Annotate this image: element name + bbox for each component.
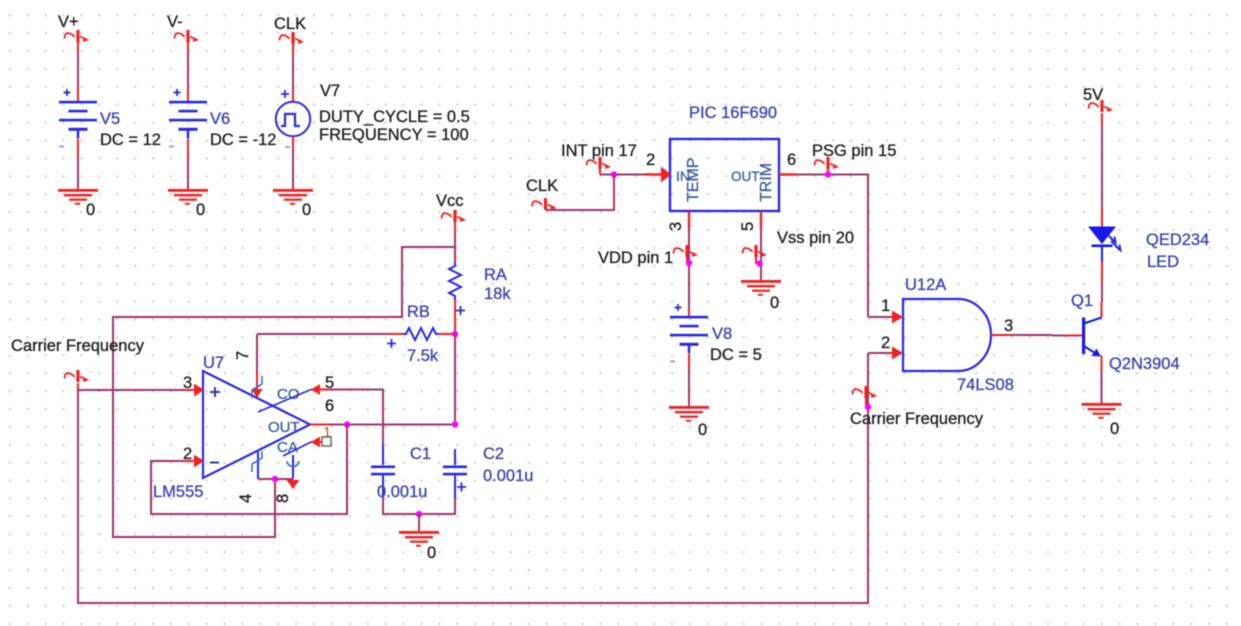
svg-text:0: 0 (698, 421, 707, 439)
wire carrier long rail (78, 353, 868, 603)
ground 0 (C1/C2) (399, 531, 439, 547)
svg-text:0: 0 (770, 294, 779, 312)
svg-text:LED: LED (1147, 253, 1179, 271)
pin 4 lead (bottom) (257, 452, 259, 479)
off-page connector VDD (674, 245, 699, 257)
svg-text:6: 6 (325, 397, 334, 415)
wire V8 to ground (688, 354, 690, 369)
svg-text:Vcc: Vcc (436, 192, 464, 210)
svg-text:RA: RA (484, 266, 507, 284)
svg-text:0: 0 (86, 201, 95, 219)
svg-text:RB: RB (407, 303, 430, 321)
svg-text:0: 0 (302, 201, 311, 219)
wire pin7 to RB (257, 333, 389, 335)
LED D (QED234) (1088, 227, 1116, 245)
wire V6 to ground (187, 139, 189, 157)
svg-text:CLK: CLK (526, 177, 558, 195)
svg-text:7: 7 (234, 351, 252, 360)
wire VDD to V8 (688, 309, 690, 317)
svg-text:V6: V6 (210, 110, 230, 128)
junction OUT feedback (344, 421, 350, 427)
wire pin 5 down to ground (760, 228, 762, 280)
capacitor C2 0.001u (454, 449, 456, 465)
svg-text:18k: 18k (484, 285, 511, 303)
pin 6 of PIC (779, 173, 796, 175)
wire CLK to V7 (292, 34, 294, 46)
svg-text:U7: U7 (203, 354, 224, 372)
svg-text:OUT: OUT (731, 169, 760, 184)
svg-text:U12A: U12A (905, 276, 946, 294)
ground 0 (V6) (168, 189, 208, 205)
wire junction down to OUT node (454, 334, 456, 425)
junction pins 4/8 (272, 476, 278, 482)
wire to pin 3 (78, 389, 185, 391)
pin 3 (+) (185, 389, 196, 391)
svg-text:8: 8 (274, 494, 292, 503)
svg-text:DC = -12: DC = -12 (210, 131, 276, 149)
svg-text:C1: C1 (410, 445, 431, 463)
wire PSG rail corner into pin 1 (868, 316, 889, 318)
wire Vcc stub (454, 221, 456, 234)
wire pin 7 up to RB rail (256, 334, 258, 372)
wire OUT node (330, 424, 455, 426)
wire RA bottom to junction (454, 300, 456, 334)
off-page connector INT (587, 157, 612, 169)
off-page connector Vss (743, 245, 768, 257)
wire AND output to Q1 base (1010, 334, 1052, 336)
wire V5 to ground (77, 139, 79, 157)
junction Vss (756, 260, 762, 266)
svg-text:3: 3 (667, 222, 685, 231)
junction cap ground (416, 511, 422, 517)
junction RA/RB (452, 331, 458, 337)
svg-text:Q1: Q1 (1071, 292, 1093, 310)
svg-text:0.001u: 0.001u (483, 467, 533, 485)
ground 0 (V5) (58, 189, 98, 205)
ground 0 (V8) (669, 406, 709, 422)
svg-text:PIC 16F690: PIC 16F690 (689, 104, 777, 122)
wire Vcc branch to pin 8 loop (113, 247, 455, 537)
junction CLK/INT (611, 171, 617, 177)
off-page connector 5V (1089, 100, 1114, 112)
op-amp style triangle U7 (203, 371, 310, 478)
pin 2 of PIC (645, 173, 662, 175)
svg-text:C2: C2 (483, 445, 504, 463)
svg-text:CLK: CLK (274, 15, 306, 33)
wire 5V to LED (1101, 113, 1103, 124)
svg-text:4: 4 (237, 494, 255, 503)
ground 0 (Vss) (741, 280, 781, 296)
off-page connector PSG (815, 157, 840, 169)
junction OUT / C2 (452, 421, 458, 427)
svg-text:Vss pin 20: Vss pin 20 (777, 229, 854, 247)
wire to cap ground (418, 514, 420, 531)
wire connector stub (77, 383, 79, 390)
svg-text:CO: CO (277, 386, 300, 403)
svg-text:2: 2 (881, 334, 890, 352)
off-page connector Carrier Frequency (65, 370, 90, 382)
wire pin 6 to AND pin 1 (796, 175, 868, 318)
svg-text:V-: V- (167, 13, 183, 31)
battery V6 (169, 89, 207, 148)
off-page connector CLK mid (532, 198, 557, 210)
pin 3 of U12A output (991, 334, 1010, 336)
Q1 base lead (1052, 335, 1065, 337)
pin 8 lead (bottom) (292, 455, 294, 479)
wire RB to RA junction (439, 333, 455, 335)
svg-text:1: 1 (881, 297, 890, 315)
svg-text:3: 3 (1004, 317, 1013, 335)
wire Q1 emitter to ground (1101, 356, 1103, 371)
pin 2 of U12A (889, 352, 896, 354)
svg-text:5V: 5V (1083, 86, 1103, 104)
wire pin 3 down to V8 (688, 228, 690, 309)
pin 5 of PIC (bottom) (760, 211, 762, 228)
svg-text:V8: V8 (712, 325, 732, 343)
svg-text:7.5k: 7.5k (407, 347, 439, 365)
svg-text:2: 2 (646, 151, 655, 169)
svg-text:0: 0 (427, 544, 436, 562)
svg-text:LM555: LM555 (153, 483, 203, 501)
wire CLK to INT junction (546, 175, 614, 211)
svg-text:DC = 12: DC = 12 (100, 131, 161, 149)
wire joining pins 4 and 8 (258, 478, 293, 480)
svg-text:V5: V5 (100, 110, 120, 128)
svg-text:QED234: QED234 (1146, 231, 1209, 249)
svg-text:Carrier Frequency: Carrier Frequency (11, 337, 145, 355)
AND gate U12A body (903, 299, 991, 371)
wire V+ to V5 (77, 32, 79, 44)
wire carrier rail into pin 2 (868, 352, 889, 354)
power arrow pin 8 (287, 480, 300, 489)
svg-text:6: 6 (787, 151, 796, 169)
svg-text:V7: V7 (320, 82, 340, 100)
svg-text:OUT: OUT (268, 419, 300, 436)
pulse source V7 (281, 90, 289, 98)
ground 0 (Q1) (1082, 403, 1122, 419)
wire V7 to ground (292, 136, 294, 148)
svg-text:TEMP: TEMP (685, 158, 702, 202)
resistor RB 7.5k (403, 328, 439, 340)
svg-text:0: 0 (1110, 420, 1119, 438)
pin 7 hysteresis glyph (252, 376, 262, 398)
off-page connector V- (175, 30, 200, 42)
battery V5 (59, 89, 97, 148)
svg-text:V+: V+ (58, 13, 79, 31)
ground 0 (V7) (273, 189, 313, 205)
wire V- to V6 (187, 32, 189, 44)
pin 2 (-) (185, 460, 196, 462)
svg-text:74LS08: 74LS08 (957, 376, 1014, 394)
junction carrier connector (865, 404, 871, 410)
resistor RA 18k (449, 262, 461, 300)
svg-text:TRIM: TRIM (758, 163, 775, 202)
wire C1 bottom rail (383, 498, 455, 514)
junction VDD (686, 260, 692, 266)
pin 7 lead (256, 372, 258, 390)
svg-text:Q2N3904: Q2N3904 (1109, 355, 1180, 373)
svg-text:PSG pin 15: PSG pin 15 (812, 142, 896, 160)
svg-text:5: 5 (739, 222, 757, 231)
svg-text:VDD pin 1: VDD pin 1 (598, 249, 673, 267)
svg-text:FREQUENCY = 100: FREQUENCY = 100 (319, 126, 469, 144)
svg-text:0.001u: 0.001u (377, 483, 427, 501)
wire LED to Q1 collector (1101, 247, 1103, 262)
off-page connector Vcc (442, 210, 467, 222)
svg-text:DUTY_CYCLE = 0.5: DUTY_CYCLE = 0.5 (319, 108, 470, 126)
wire pin5 to C1 (330, 390, 383, 445)
wire INT to pin 2 (600, 174, 645, 176)
wire OUT to pin 2 loop (151, 425, 347, 515)
CO lead diagonal (258, 390, 311, 413)
CA lead diagonal (283, 442, 311, 456)
off-page connector V+ (65, 30, 90, 42)
svg-text:Carrier Frequency: Carrier Frequency (850, 410, 984, 428)
svg-text:DC = 5: DC = 5 (710, 346, 762, 364)
off-page connector Carrier Frequency (right) (853, 386, 878, 398)
junction PSG (825, 171, 831, 177)
off-page connector CLK (280, 32, 305, 44)
svg-text:0: 0 (196, 201, 205, 219)
hierarchical block PIC 16F690 (670, 139, 779, 211)
battery V8 (670, 304, 708, 363)
pin 3 of PIC (bottom) (688, 211, 690, 228)
capacitor C1 0.001u (382, 444, 384, 465)
pin 1 of U12A (889, 316, 896, 318)
